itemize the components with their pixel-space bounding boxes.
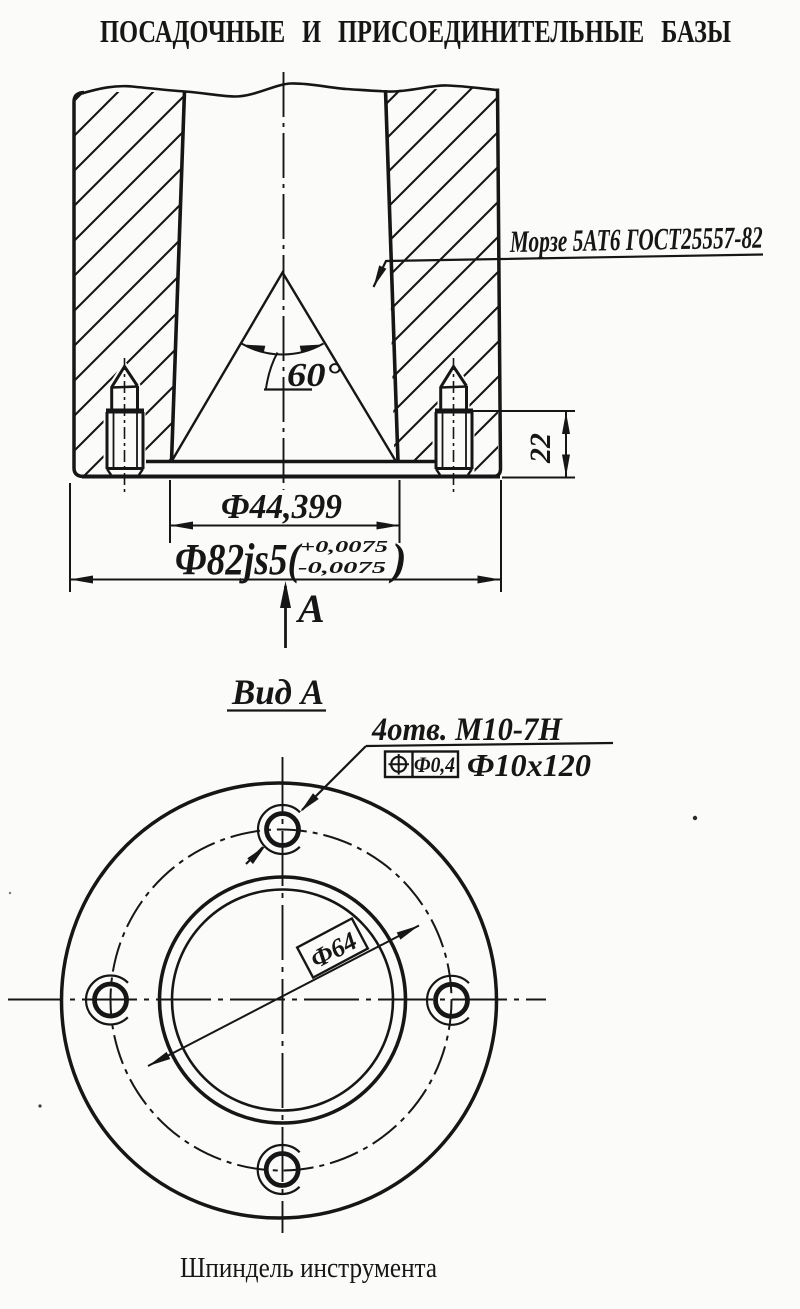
svg-text:Ф10x120: Ф10x120 (467, 747, 591, 783)
svg-text:Ф0,4: Ф0,4 (414, 752, 455, 777)
svg-text:Вид А: Вид А (231, 672, 324, 712)
svg-text:А: А (295, 586, 325, 631)
svg-text:+0,0075: +0,0075 (300, 537, 389, 556)
svg-text:-0,0075: -0,0075 (298, 558, 387, 577)
svg-text:60°: 60° (287, 357, 341, 394)
svg-text:Ф82js5(: Ф82js5( (175, 535, 303, 584)
svg-text:Ф44,399: Ф44,399 (221, 487, 342, 526)
svg-text:4отв. М10-7Н: 4отв. М10-7Н (371, 712, 563, 748)
svg-text:Шпиндель инструмента: Шпиндель инструмента (180, 1252, 437, 1284)
svg-text:22: 22 (524, 433, 557, 464)
svg-text:ПОСАДОЧНЫЕ И ПРИСОЕДИНИТЕЛЬНЫЕ: ПОСАДОЧНЫЕ И ПРИСОЕДИНИТЕЛЬНЫЕ БАЗЫ (100, 13, 731, 49)
svg-text:Морзе 5АТ6 ГОСТ25557-82: Морзе 5АТ6 ГОСТ25557-82 (509, 220, 763, 259)
